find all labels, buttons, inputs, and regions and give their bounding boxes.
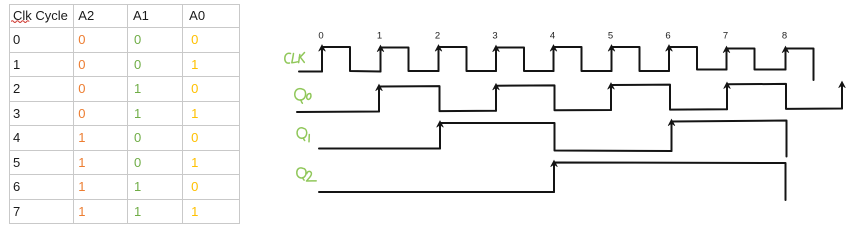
svg-text:8: 8 — [782, 31, 787, 42]
svg-text:5: 5 — [608, 31, 613, 42]
svg-text:2: 2 — [435, 31, 440, 42]
svg-text:4: 4 — [550, 31, 555, 42]
svg-text:6: 6 — [665, 31, 670, 42]
svg-text:3: 3 — [492, 31, 497, 42]
svg-text:1: 1 — [377, 31, 382, 42]
svg-text:0: 0 — [318, 31, 323, 42]
svg-text:7: 7 — [723, 31, 728, 42]
